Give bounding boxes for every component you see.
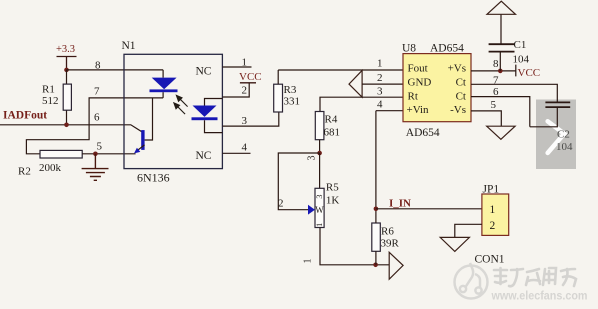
- node junction R4/R5: [317, 151, 322, 156]
- wire -Vs pin 5 to ground arrow: [471, 111, 501, 126]
- svg-text:3: 3: [242, 115, 248, 127]
- svg-text:GND: GND: [408, 77, 432, 89]
- svg-text:681: 681: [324, 127, 341, 139]
- svg-text:331: 331: [284, 96, 301, 108]
- wire pin 4 (+Vin) horizontal: [376, 110, 403, 112]
- wire Rt pin 3 to R4: [320, 97, 403, 111]
- svg-text:5: 5: [491, 99, 497, 111]
- svg-text:512: 512: [42, 95, 59, 107]
- svg-text:+Vs: +Vs: [448, 63, 466, 75]
- svg-text:N1: N1: [122, 40, 136, 52]
- capacitor C2: [530, 102, 573, 153]
- svg-text:U8: U8: [402, 43, 416, 55]
- power +3.3: [56, 44, 77, 69]
- wire R5 bottom to bottom net: [320, 228, 389, 265]
- svg-text:VCC: VCC: [239, 71, 262, 83]
- svg-text:4: 4: [242, 142, 248, 154]
- wire pin 1 stub (NC): [222, 66, 251, 68]
- svg-text:3: 3: [307, 156, 318, 161]
- svg-text:2: 2: [490, 220, 496, 232]
- svg-text:104: 104: [513, 54, 530, 66]
- svg-text:NC: NC: [196, 150, 212, 162]
- wire Ct pin 7 to C2 top: [471, 84, 557, 101]
- svg-text:3: 3: [314, 195, 324, 199]
- wire +Vs pin 8 to VCC: [471, 65, 516, 77]
- svg-text:R6: R6: [381, 226, 394, 238]
- svg-text:8: 8: [95, 60, 101, 72]
- svg-text:1: 1: [242, 57, 248, 69]
- svg-text:+3.3: +3.3: [56, 44, 75, 55]
- svg-text:JP1: JP1: [483, 184, 500, 196]
- wire +Vin vertical: [375, 111, 377, 209]
- svg-text:AD654: AD654: [430, 43, 464, 55]
- wire R4 junction to R5 top: [319, 153, 321, 188]
- node arrow connector (left-pointing): [349, 70, 362, 97]
- node arrow connector (right-pointing): [389, 252, 403, 279]
- power VCC bar (N1 pin2): [239, 71, 262, 83]
- op-amp optocoupler N1 box: [122, 40, 223, 185]
- watermark chinese text: [494, 268, 576, 286]
- svg-text:7: 7: [94, 86, 100, 98]
- svg-text:39R: 39R: [381, 238, 400, 250]
- svg-text:1: 1: [377, 58, 383, 70]
- svg-text:R4: R4: [325, 114, 338, 126]
- resistor R1: [42, 70, 71, 125]
- svg-text:1: 1: [303, 259, 314, 264]
- node junction IADFout/R1: [64, 123, 69, 128]
- svg-text:Rt: Rt: [408, 91, 418, 103]
- power arrow up: [487, 1, 516, 14]
- svg-text:104: 104: [556, 141, 573, 153]
- watermark logo: [455, 263, 488, 299]
- potentiometer R5: [308, 182, 339, 228]
- svg-text:NC: NC: [196, 66, 212, 78]
- node junction +3.3/R1/pin8: [64, 68, 69, 73]
- svg-text:8: 8: [493, 58, 499, 70]
- svg-text:1: 1: [314, 223, 324, 227]
- svg-text:Ct: Ct: [456, 91, 466, 103]
- diode LED1: [150, 78, 178, 98]
- svg-text:3: 3: [377, 86, 383, 98]
- ground arrow (-Vs): [487, 126, 515, 139]
- ground arrow (JP1): [440, 237, 469, 251]
- wire pin 8 to LED1 anode: [67, 70, 164, 78]
- node junction C1/+Vs: [498, 69, 503, 74]
- wire pin 4 stub (NC): [222, 152, 250, 154]
- node junction I_IN: [374, 207, 379, 212]
- wire I_IN to JP1: [376, 208, 482, 210]
- svg-text:2: 2: [377, 72, 383, 84]
- svg-text:VCC: VCC: [518, 67, 541, 79]
- svg-text:5: 5: [97, 141, 103, 153]
- wire pin 7 elbow to R2: [26, 98, 163, 154]
- resistor R2: [18, 150, 136, 177]
- svg-text:IADFout: IADFout: [3, 110, 47, 122]
- resistor R6: [372, 209, 400, 265]
- svg-text:6: 6: [94, 112, 100, 124]
- photon arrows: [174, 95, 188, 114]
- wire JP1 pin 2 to ground arrow: [455, 224, 482, 237]
- svg-text:I_IN: I_IN: [389, 198, 411, 210]
- svg-text:CON1: CON1: [475, 254, 505, 266]
- gray box chevron: [548, 121, 565, 153]
- svg-text:R2: R2: [18, 166, 31, 178]
- svg-text:1: 1: [490, 204, 496, 216]
- wire pin 3 to R3: [222, 112, 278, 126]
- diode LED2: [192, 99, 223, 133]
- op-amp U8 AD654: [402, 43, 471, 140]
- svg-text:www.elecfans.com: www.elecfans.com: [491, 289, 588, 303]
- svg-text:2: 2: [242, 85, 248, 97]
- svg-text:+Vin: +Vin: [407, 104, 430, 116]
- svg-text:6N136: 6N136: [137, 171, 170, 185]
- ground: [82, 154, 109, 181]
- wire pin 2 to VCC: [222, 83, 249, 97]
- svg-text:R3: R3: [284, 84, 297, 96]
- svg-text:200k: 200k: [39, 162, 62, 174]
- svg-text:1K: 1K: [326, 195, 340, 207]
- svg-text:Ct: Ct: [456, 77, 466, 89]
- transistor Q (inside N1): [134, 98, 153, 153]
- node junction R2/pin5/ground: [93, 152, 98, 157]
- svg-text:4: 4: [377, 99, 383, 111]
- svg-text:C2: C2: [557, 129, 570, 141]
- svg-text:AD654: AD654: [406, 127, 440, 139]
- svg-text:W: W: [315, 205, 324, 215]
- gray overlay box: [536, 100, 576, 170]
- svg-text:R5: R5: [326, 182, 339, 194]
- wire Ct pin 6 to C2 bottom: [471, 97, 530, 127]
- node junction R6 bottom: [373, 263, 378, 268]
- connector JP1: [482, 184, 509, 236]
- resistor R3: [274, 70, 300, 112]
- capacitor C1: [489, 14, 530, 71]
- wire GND pin 2: [362, 83, 403, 85]
- svg-text:7: 7: [493, 74, 499, 86]
- svg-text:6: 6: [493, 86, 499, 98]
- svg-text:-Vs: -Vs: [450, 104, 466, 116]
- resistor R4: [315, 112, 340, 154]
- svg-text:2: 2: [278, 198, 284, 210]
- wire IADFout / pin 6 / transistor base: [0, 125, 142, 132]
- wire Fout net: [278, 69, 403, 71]
- wire R5 wiper loop: [278, 153, 319, 210]
- svg-text:C1: C1: [514, 39, 527, 51]
- svg-text:Fout: Fout: [408, 63, 428, 75]
- svg-text:R1: R1: [42, 84, 55, 96]
